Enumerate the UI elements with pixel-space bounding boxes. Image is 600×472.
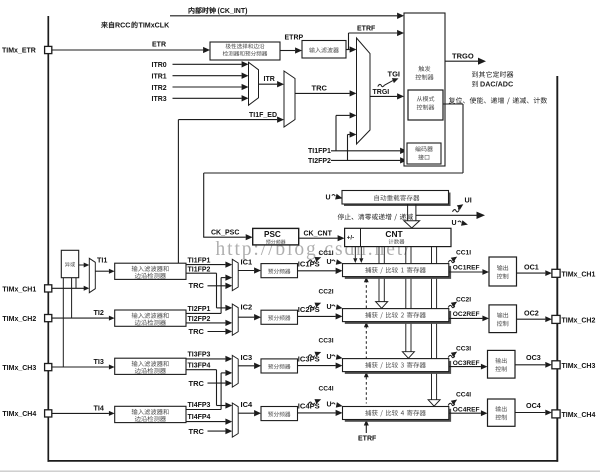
svg-text:TIMx_CH4: TIMx_CH4 [562, 412, 596, 419]
wire IC4PS [298, 412, 336, 414]
event arrow CC4I left [308, 402, 315, 404]
mux IC2 select [232, 304, 238, 335]
wire CK_PSC [203, 236, 246, 238]
svg-text:TI2FP2: TI2FP2 [188, 316, 211, 323]
block prescaler IC3 [261, 359, 298, 373]
svg-text:TIMx_CH2: TIMx_CH2 [562, 318, 596, 325]
svg-text:TI2: TI2 [94, 308, 104, 317]
svg-text:ETRP: ETRP [285, 35, 304, 42]
svg-text:OC2: OC2 [524, 308, 539, 317]
wire TI1F_ED [177, 120, 179, 264]
wire TRC row 4 [208, 430, 226, 432]
wire TI4FP3 cross up [220, 373, 222, 410]
wire TI1FP1 to TRGI mux [336, 114, 350, 116]
wire OC3REF [449, 366, 481, 368]
pin TIMx_CH4 right [552, 410, 560, 418]
wire TI2FP1 cross up [220, 278, 222, 314]
svg-text:TIMx_CH1: TIMx_CH1 [2, 287, 36, 294]
page bottom edge [0, 470, 600, 472]
wire TRC row 3 [208, 382, 226, 384]
register capture compare 1 [345, 266, 451, 279]
wire ITR2 [173, 86, 242, 88]
label reset enable updown count [449, 97, 547, 104]
svg-text:IC3: IC3 [241, 353, 253, 362]
svg-text:TRC: TRC [189, 379, 205, 388]
event arrow UI [453, 210, 460, 212]
block slave mode controller [408, 90, 443, 120]
block auto-reload register [344, 193, 451, 207]
svg-text:ETRF: ETRF [358, 436, 377, 443]
mux TI1 xor select [89, 258, 95, 292]
block PSC prescaler [253, 228, 299, 245]
svg-text:TI4FP3: TI4FP3 [188, 402, 211, 409]
svg-text:TRC: TRC [312, 84, 328, 93]
block trigger controller [404, 13, 445, 166]
svg-text:TRC: TRC [189, 327, 205, 336]
timer periphery left border [47, 16, 49, 462]
wire OC1REF [449, 271, 483, 273]
wire TI3 from pin [52, 366, 109, 368]
bus CNT to CC2 [378, 247, 380, 302]
svg-text:ITR0: ITR0 [152, 62, 167, 69]
svg-text:U: U [327, 354, 332, 361]
block prescaler IC1 [261, 264, 298, 278]
svg-text:TI3: TI3 [94, 357, 104, 366]
svg-text:CK_CNT: CK_CNT [304, 230, 333, 237]
wire TI2FP2 to encoder [331, 159, 400, 161]
svg-text:IC1: IC1 [241, 257, 253, 266]
block encoder interface [407, 143, 441, 164]
wire CK_CNT [299, 237, 338, 239]
event arrow TGI [378, 84, 385, 86]
wire ETRP [280, 50, 295, 52]
pin TIMx_ETR [45, 46, 52, 53]
pin TIMx_CH3 [45, 364, 52, 371]
wire CK_INT [170, 15, 397, 17]
pin TIMx_CH1 [45, 285, 52, 292]
wire ITR3 [173, 97, 242, 99]
mux IC1 select [232, 259, 238, 290]
svg-text:ITR3: ITR3 [152, 96, 167, 103]
svg-text:OC3: OC3 [526, 353, 541, 362]
register capture compare 2 [345, 311, 451, 324]
event arrow CC1I left [308, 260, 315, 262]
event arrow CC4I right [448, 403, 455, 405]
wire ITR [259, 83, 278, 85]
wire xor output [79, 264, 85, 266]
wire TRC row 2 [208, 331, 226, 333]
event arrow U row 3 [332, 355, 336, 357]
pin TIMx_CH1 right [552, 269, 560, 277]
svg-text:U: U [327, 402, 332, 409]
event arrow U into auto-reload [332, 195, 336, 197]
event arrow U row 1 [332, 260, 336, 262]
wire TI4FP4 [186, 421, 225, 423]
svg-text:TGI: TGI [388, 70, 401, 79]
svg-text:OC2REF: OC2REF [453, 311, 480, 318]
wire IC3PS [298, 365, 336, 367]
wire IC1PS [298, 270, 336, 272]
event arrow CC3I right [448, 355, 455, 357]
svg-text:CC4I: CC4I [456, 391, 471, 398]
wire TI3FP4 cross down [216, 370, 218, 406]
bus CNT to CC3 [405, 247, 407, 352]
svg-text:TIMxCLK: TIMxCLK [139, 22, 171, 30]
svg-text:UI: UI [465, 195, 472, 204]
svg-text:CC1I: CC1I [456, 249, 471, 256]
svg-text:CC2I: CC2I [319, 289, 334, 296]
block output control 4 [488, 399, 516, 426]
wire TRC [295, 92, 350, 94]
block input filter edge detector 2 [115, 310, 186, 326]
block prescaler IC4 [261, 407, 298, 421]
svg-text:TIMx_ETR: TIMx_ETR [2, 48, 36, 55]
svg-text:ETRF: ETRF [357, 25, 376, 32]
block xor [61, 250, 78, 277]
mux trigger select TRGI [357, 38, 371, 144]
svg-text:TIMx_CH3: TIMx_CH3 [2, 365, 36, 372]
svg-text:TI4: TI4 [94, 403, 104, 412]
mux ITR select [249, 62, 259, 105]
event arrow CC2I left [308, 306, 315, 308]
wire TI2FP2 to TRGI mux [348, 134, 350, 136]
wire IC3 [238, 365, 254, 367]
wire ETRF to trigger controller [346, 49, 349, 51]
svg-text:TIMx_CH4: TIMx_CH4 [2, 411, 36, 418]
wire TRC row 1 [208, 285, 226, 287]
svg-text:U: U [327, 259, 332, 266]
label to other timers [472, 71, 513, 78]
event arrow CC2I right [448, 305, 455, 307]
event arrow U right [458, 221, 462, 223]
label to DAC ADC [472, 81, 478, 87]
wire OC2 [517, 318, 546, 320]
wire capture trigger dashed [365, 280, 367, 404]
svg-text:TRGI: TRGI [373, 89, 390, 96]
block output control 2 [489, 305, 517, 333]
svg-text:DAC/ADC: DAC/ADC [480, 80, 513, 89]
wire ETR [52, 49, 203, 51]
svg-text:ITR1: ITR1 [152, 73, 167, 80]
block output control 3 [488, 350, 516, 378]
wire TI1 [95, 270, 109, 272]
svg-text:TI2FP2: TI2FP2 [308, 158, 331, 165]
svg-text:TI3FP3: TI3FP3 [188, 351, 211, 358]
wire TI3FP3 [186, 358, 225, 360]
wire TI4FP3 [186, 409, 221, 411]
svg-text:TI1FP2: TI1FP2 [188, 267, 211, 274]
svg-text:TI1: TI1 [97, 255, 107, 264]
svg-text:OC4REF: OC4REF [453, 406, 480, 413]
wire TI2FP2 [186, 322, 225, 324]
wire cross into mux 4 [217, 405, 226, 407]
pin TIMx_CH3 right [552, 361, 560, 369]
svg-text:IC2: IC2 [241, 302, 253, 311]
wire IC4 [238, 412, 254, 414]
svg-text:OC4: OC4 [526, 401, 541, 410]
svg-text:CNT: CNT [385, 229, 403, 239]
pin TIMx_CH2 [45, 315, 52, 322]
svg-text:TRGO: TRGO [452, 51, 474, 60]
timer periphery right border [556, 76, 558, 462]
timer periphery bottom border [48, 460, 559, 462]
mux IC3 select [232, 355, 238, 387]
register capture compare 4 [345, 409, 451, 422]
wire IC2PS [298, 315, 336, 317]
wire OC4 [515, 412, 545, 414]
register capture compare 3 [345, 361, 451, 374]
svg-text:TIMx_CH1: TIMx_CH1 [562, 272, 596, 279]
svg-text:TI2FP1: TI2FP1 [188, 306, 211, 313]
wire TRGO [445, 60, 478, 62]
wire TIMx_CH1 to xor and mux [52, 287, 85, 289]
wire IC1 [238, 270, 254, 272]
svg-text:ETR: ETR [152, 41, 166, 48]
svg-text:TI1FP1: TI1FP1 [188, 257, 211, 264]
svg-text:RCC: RCC [115, 22, 130, 30]
svg-text:TI3FP4: TI3FP4 [188, 362, 211, 369]
block output control 1 [489, 257, 517, 286]
block prescaler IC2 [261, 310, 298, 324]
block ETR input filter [302, 41, 346, 59]
wire TI1FP2 [186, 272, 217, 274]
wire ETRF to TRGI mux [346, 49, 350, 51]
svg-text:ITR: ITR [264, 76, 275, 83]
block input filter edge detector 3 [115, 358, 186, 374]
wire TI4 from pin [52, 412, 109, 414]
svg-text:U: U [452, 220, 457, 227]
wire OC3 [515, 364, 545, 366]
wire ITR1 [173, 75, 242, 77]
pin TIMx_CH2 right [552, 315, 560, 323]
svg-text:TRC: TRC [189, 427, 205, 436]
svg-text:TIMx_CH2: TIMx_CH2 [2, 316, 36, 323]
block polarity selection edge detector prescaler [210, 42, 280, 60]
svg-text:TI1F_ED: TI1F_ED [249, 112, 277, 119]
wire TI3FP4 [186, 369, 217, 371]
svg-text:(CK_INT): (CK_INT) [218, 8, 248, 15]
pin TIMx_CH4 [45, 410, 52, 417]
wire ETRF capture 4 [365, 425, 367, 433]
mux IC4 select [232, 403, 238, 437]
svg-text:CC4I: CC4I [319, 386, 334, 393]
event arrow CC3I left [308, 355, 315, 357]
mux TRC select [284, 71, 295, 127]
wire TI2 from pin [52, 317, 109, 319]
svg-text:CC1I: CC1I [319, 250, 334, 257]
label TIMxCLK from RCC [101, 22, 114, 28]
wire TI1FP2 cross down [216, 273, 218, 308]
event arrow CC1I right [448, 260, 455, 262]
wire OC2REF [449, 317, 483, 319]
bus CNT to CC4 [431, 247, 433, 400]
svg-text:CC3I: CC3I [319, 338, 334, 345]
svg-text:OC1: OC1 [524, 262, 539, 271]
wire IC2 [238, 316, 254, 318]
wire TRGI [370, 95, 397, 97]
bus CNT to CC1 [354, 247, 356, 259]
svg-text:CC3I: CC3I [456, 345, 471, 352]
block CNT counter [345, 228, 451, 246]
svg-text:+/-: +/- [347, 234, 354, 241]
svg-text:TIMx_CH3: TIMx_CH3 [562, 363, 596, 370]
svg-text:IC4: IC4 [241, 400, 254, 409]
wire cross into mux 2 [217, 307, 226, 309]
event arrow U row 4 [332, 403, 336, 405]
block input filter edge detector 1 [115, 263, 186, 279]
wire TI2FP1 [186, 312, 221, 314]
wire TI1FP1 [186, 264, 225, 266]
svg-text:TI1FP1: TI1FP1 [308, 148, 331, 155]
event arrow U row 2 [332, 305, 336, 307]
wire slave mode control to clock [443, 103, 463, 105]
svg-text:TI4FP4: TI4FP4 [188, 414, 211, 421]
svg-text:OC3REF: OC3REF [453, 360, 480, 367]
wire update event U right [416, 214, 478, 216]
svg-text:PSC: PSC [264, 230, 281, 239]
svg-text:CC2I: CC2I [456, 296, 471, 303]
label stop clear updown [338, 214, 413, 221]
svg-text:CK_PSC: CK_PSC [211, 229, 239, 236]
svg-text:ITR2: ITR2 [152, 85, 167, 92]
bus auto-reload to CNT hollow arrow [407, 204, 409, 221]
wire TI1FP1 to encoder [331, 150, 400, 152]
block input filter edge detector 4 [115, 406, 186, 422]
wire OC4REF [449, 412, 481, 414]
wire ITR0 [173, 63, 242, 65]
label internal clock CK_INT [189, 7, 216, 13]
svg-text:U: U [327, 304, 332, 311]
wire OC1 [517, 272, 546, 274]
svg-text:OC1REF: OC1REF [453, 265, 480, 272]
svg-text:U: U [326, 194, 331, 201]
svg-text:TRC: TRC [189, 281, 205, 290]
